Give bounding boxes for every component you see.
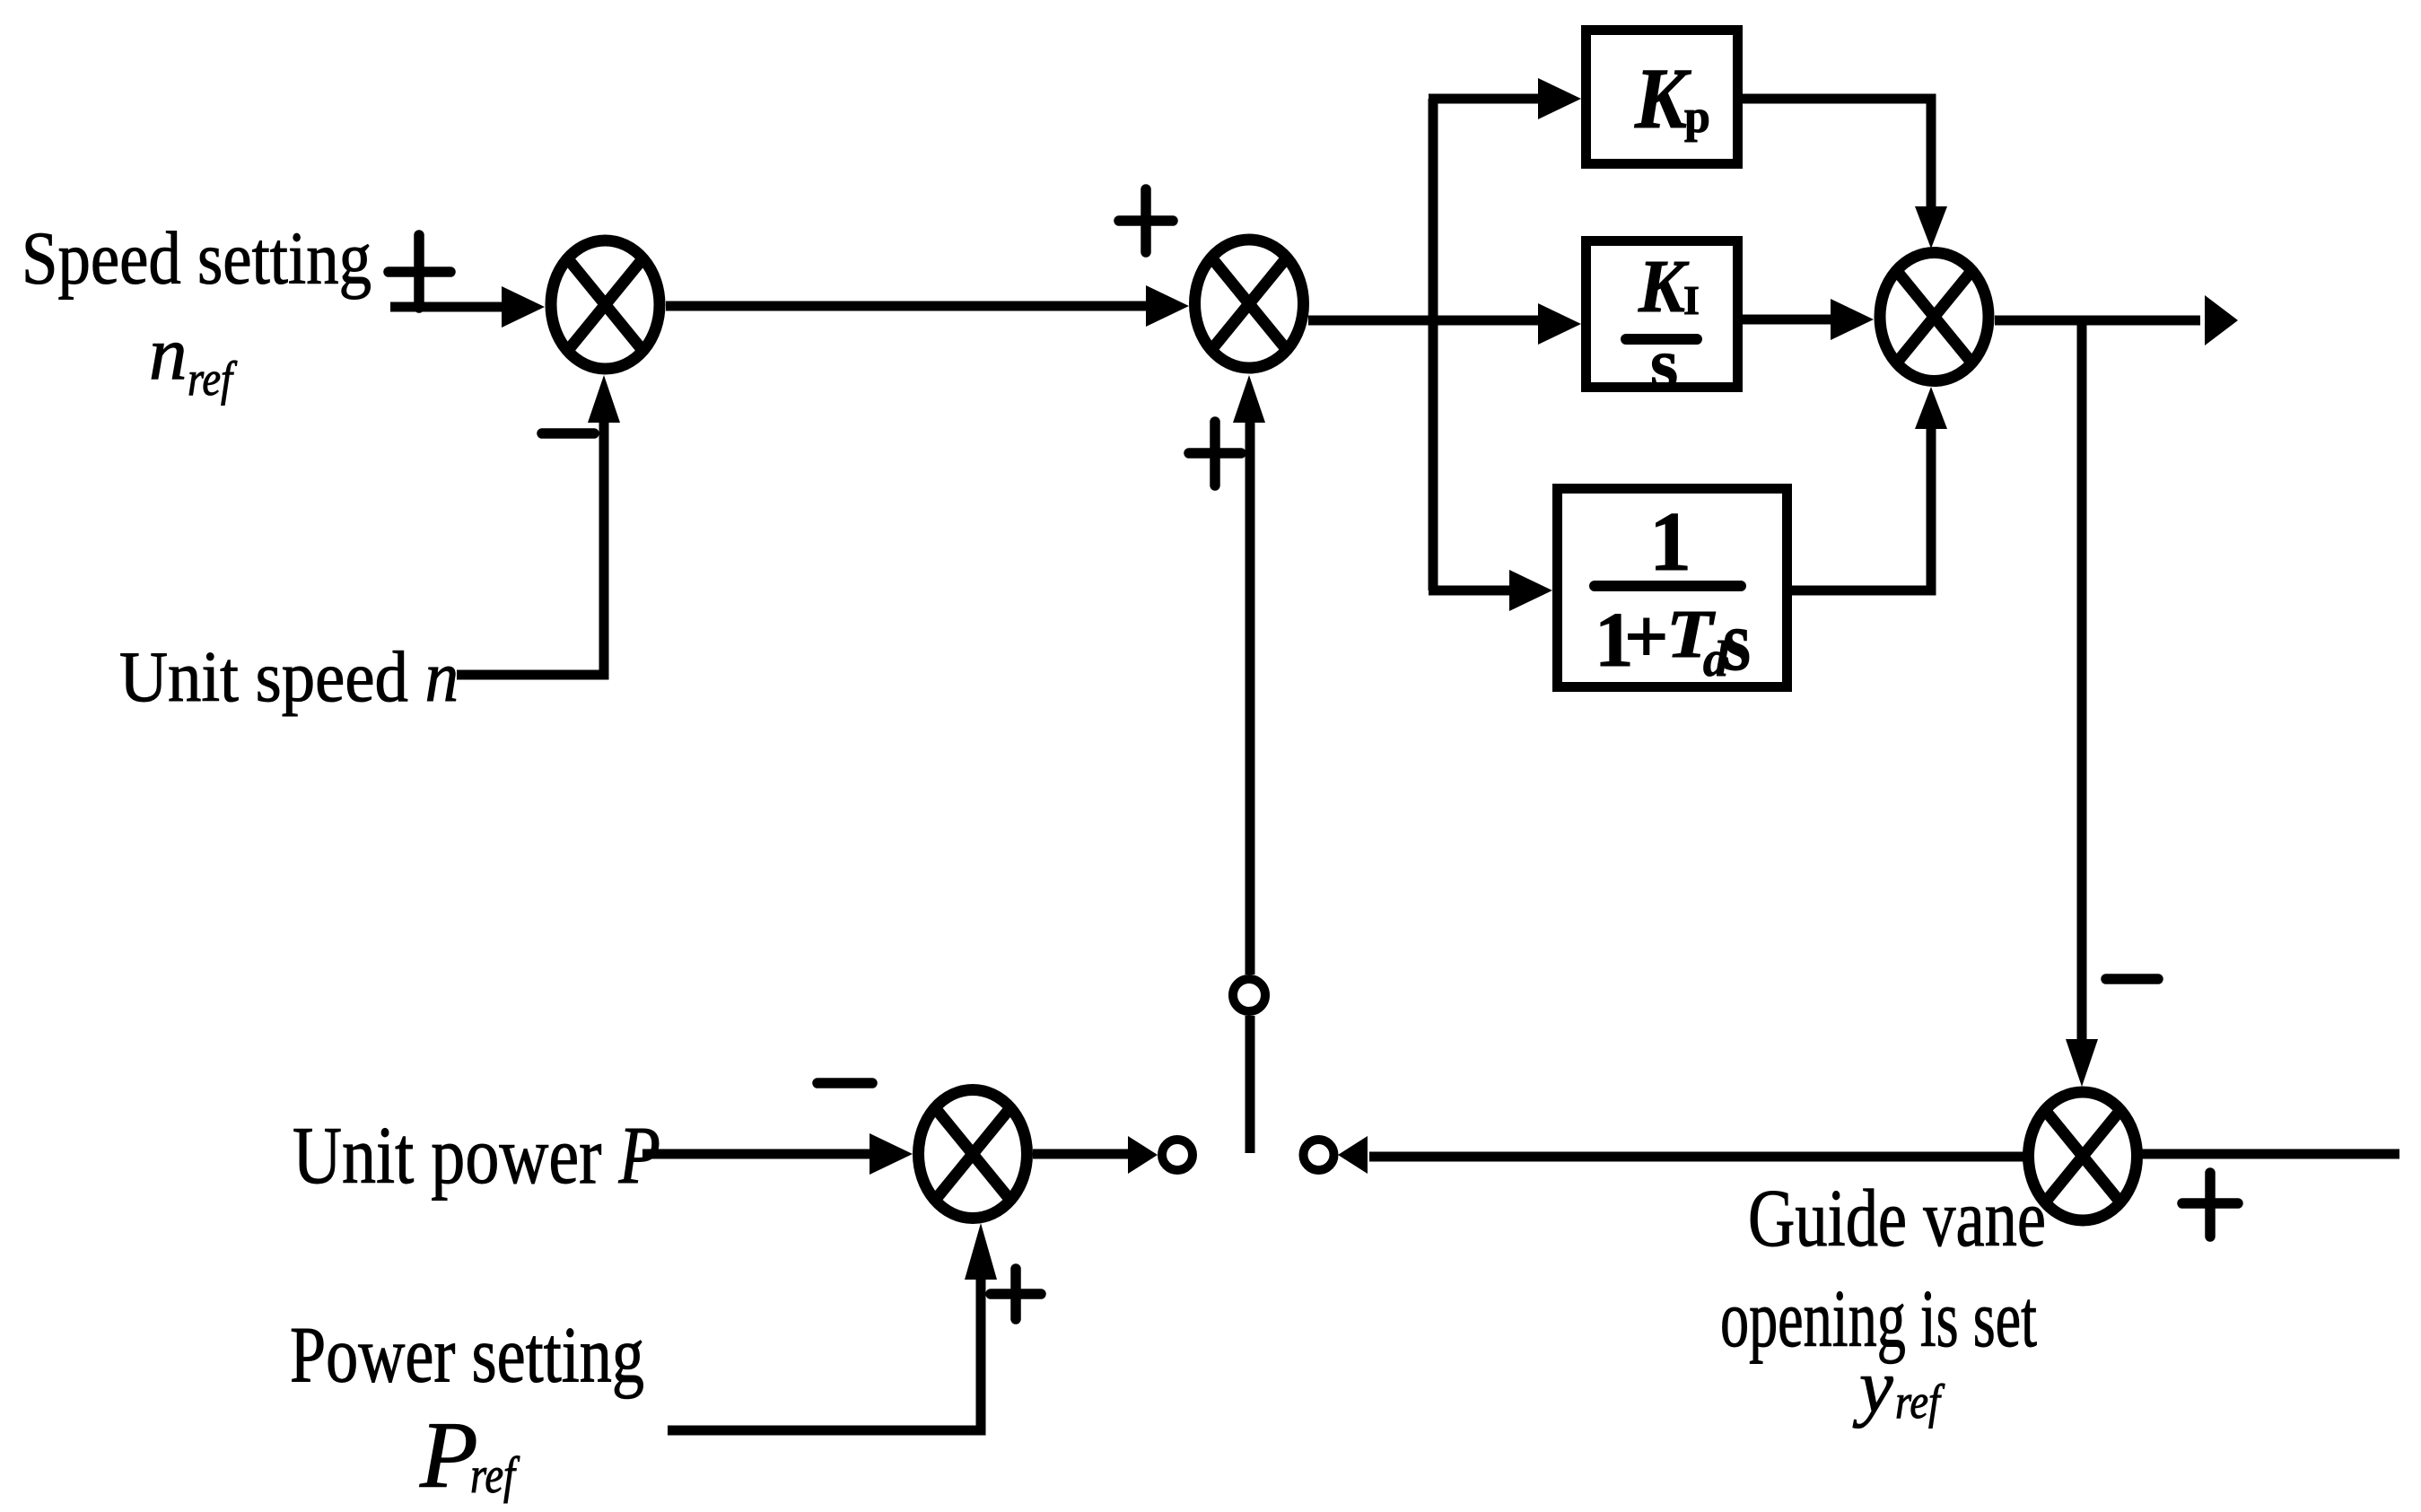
svg-text:s: s (1650, 325, 1678, 404)
svg-text:1: 1 (1649, 495, 1691, 589)
svg-text:ref: ref (188, 352, 238, 406)
svg-text:K: K (1638, 245, 1690, 328)
svg-text:Unit power P: Unit power P (293, 1110, 660, 1201)
svg-text:I: I (1683, 277, 1700, 323)
svg-text:K: K (1634, 50, 1691, 146)
svg-text:Unit speed n: Unit speed n (119, 636, 459, 717)
svg-text:P: P (419, 1403, 478, 1508)
svg-text:Power setting: Power setting (290, 1312, 644, 1400)
svg-text:Guide vane: Guide vane (1748, 1173, 2046, 1263)
svg-text:ref: ref (1895, 1375, 1945, 1429)
svg-text:s: s (1723, 593, 1751, 688)
svg-text:Speed setting: Speed setting (22, 217, 371, 301)
svg-text:n: n (149, 311, 188, 396)
svg-text:ref: ref (470, 1447, 520, 1504)
svg-text:+: + (1624, 592, 1669, 679)
svg-text:p: p (1684, 92, 1710, 143)
